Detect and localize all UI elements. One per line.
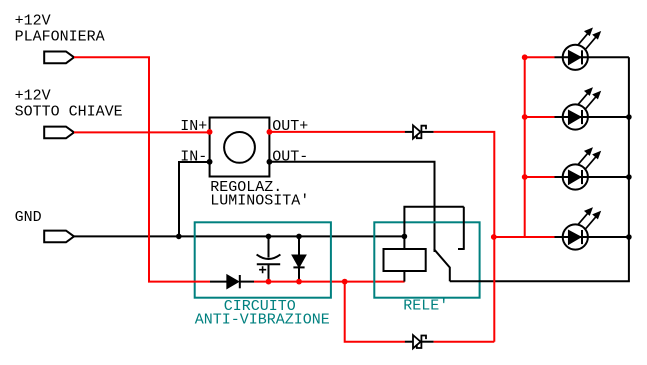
- svg-text:RELE': RELE': [403, 298, 448, 315]
- relay box: [374, 222, 479, 297]
- junction anode rail top: [522, 54, 528, 60]
- regulator module U1 (brightness regulator): [210, 118, 270, 177]
- junction cathode rail LED3: [626, 174, 632, 180]
- connector J2 SOTTO CHIAVE: [44, 127, 74, 139]
- junction relay coil top / GND: [402, 234, 408, 240]
- label RELE': [403, 298, 448, 315]
- junction cathode rail LED2: [626, 114, 632, 120]
- pin label IN-: [180, 148, 207, 165]
- junction capacitor top: [266, 234, 272, 240]
- svg-text:OUT-: OUT-: [272, 148, 308, 165]
- label GND: [15, 209, 42, 226]
- wire bottom loop left (red): [345, 282, 405, 342]
- svg-text:GND: GND: [15, 209, 42, 226]
- label CIRCUITO ANTI-VIBRAZIONE: [195, 298, 330, 329]
- junction anode rail LED2: [522, 114, 528, 120]
- wire bottom loop right (red): [434, 341, 495, 343]
- wire switch output to LED cathode rail: [450, 57, 629, 281]
- diode D3 vertical (anti-vibration): [292, 236, 305, 281]
- pin label OUT-: [272, 148, 308, 165]
- connector J3 GND: [44, 231, 74, 243]
- svg-text:PLAFONIERA: PLAFONIERA: [15, 28, 105, 45]
- wire GND across to relay coil top: [74, 235, 404, 237]
- svg-text:ANTI-VIBRAZIONE: ANTI-VIBRAZIONE: [195, 312, 330, 329]
- wire +12V sotto chiave to IN+: [74, 131, 210, 133]
- junction cathode rail LED4: [626, 234, 632, 240]
- connector J1 PLAFONIERA: [44, 52, 74, 64]
- relay K1 coil: [384, 236, 426, 281]
- label REGOLAZ. LUMINOSITA': [210, 179, 309, 210]
- pin label IN+: [180, 118, 207, 135]
- capacitor C1 polarized: [257, 236, 281, 281]
- junction capacitor bottom: [266, 279, 272, 285]
- svg-text:IN-: IN-: [180, 148, 207, 165]
- LED LED4: [555, 208, 629, 249]
- relay K1 switch arm: [434, 249, 450, 281]
- label +12V SOTTO CHIAVE: [15, 88, 123, 121]
- junction anode rail LED3: [522, 174, 528, 180]
- svg-text:+12V: +12V: [15, 12, 51, 29]
- wire OUT- to relay switch common: [269, 162, 434, 252]
- wire OUT+ to diode D1: [269, 131, 405, 133]
- svg-text:+12V: +12V: [15, 88, 51, 105]
- junction IN+: [207, 129, 213, 135]
- junction LED feed branch: [491, 234, 497, 240]
- wire LED anode rail: [494, 57, 555, 237]
- LED LED3: [555, 148, 629, 189]
- junction GND/IN-: [176, 234, 182, 240]
- junction OUT-: [267, 159, 273, 165]
- wire +12V plafoniera: right then down then across to coil: [74, 57, 210, 281]
- junction OUT+: [267, 129, 273, 135]
- label +12V PLAFONIERA: [15, 12, 105, 45]
- pin label OUT+: [272, 118, 308, 135]
- junction IN-: [207, 159, 213, 165]
- relay contact link wire (NO contact to GND net): [404, 207, 463, 250]
- LED LED1: [555, 28, 629, 69]
- LED LED2: [555, 88, 629, 130]
- anti-vibration box: [195, 222, 331, 297]
- wire diode D1 to LED rail corner, down right side: [434, 132, 495, 342]
- diode D2 (anti-vibration, filled): [210, 275, 254, 288]
- junction red branch to bottom loop: [342, 279, 348, 285]
- junction diode D3 top: [296, 234, 302, 240]
- wire IN- to GND: [179, 162, 210, 236]
- diode D1 schottky (top): [405, 125, 434, 138]
- diode D4 schottky (bottom): [405, 335, 434, 348]
- svg-text:LUMINOSITA': LUMINOSITA': [210, 193, 309, 210]
- svg-text:IN+: IN+: [180, 118, 207, 135]
- junction diode D3 bottom: [296, 279, 302, 285]
- svg-text:SOTTO CHIAVE: SOTTO CHIAVE: [15, 104, 123, 121]
- wire +12V plafoniera continuation after anti-vibration diode: [254, 281, 405, 283]
